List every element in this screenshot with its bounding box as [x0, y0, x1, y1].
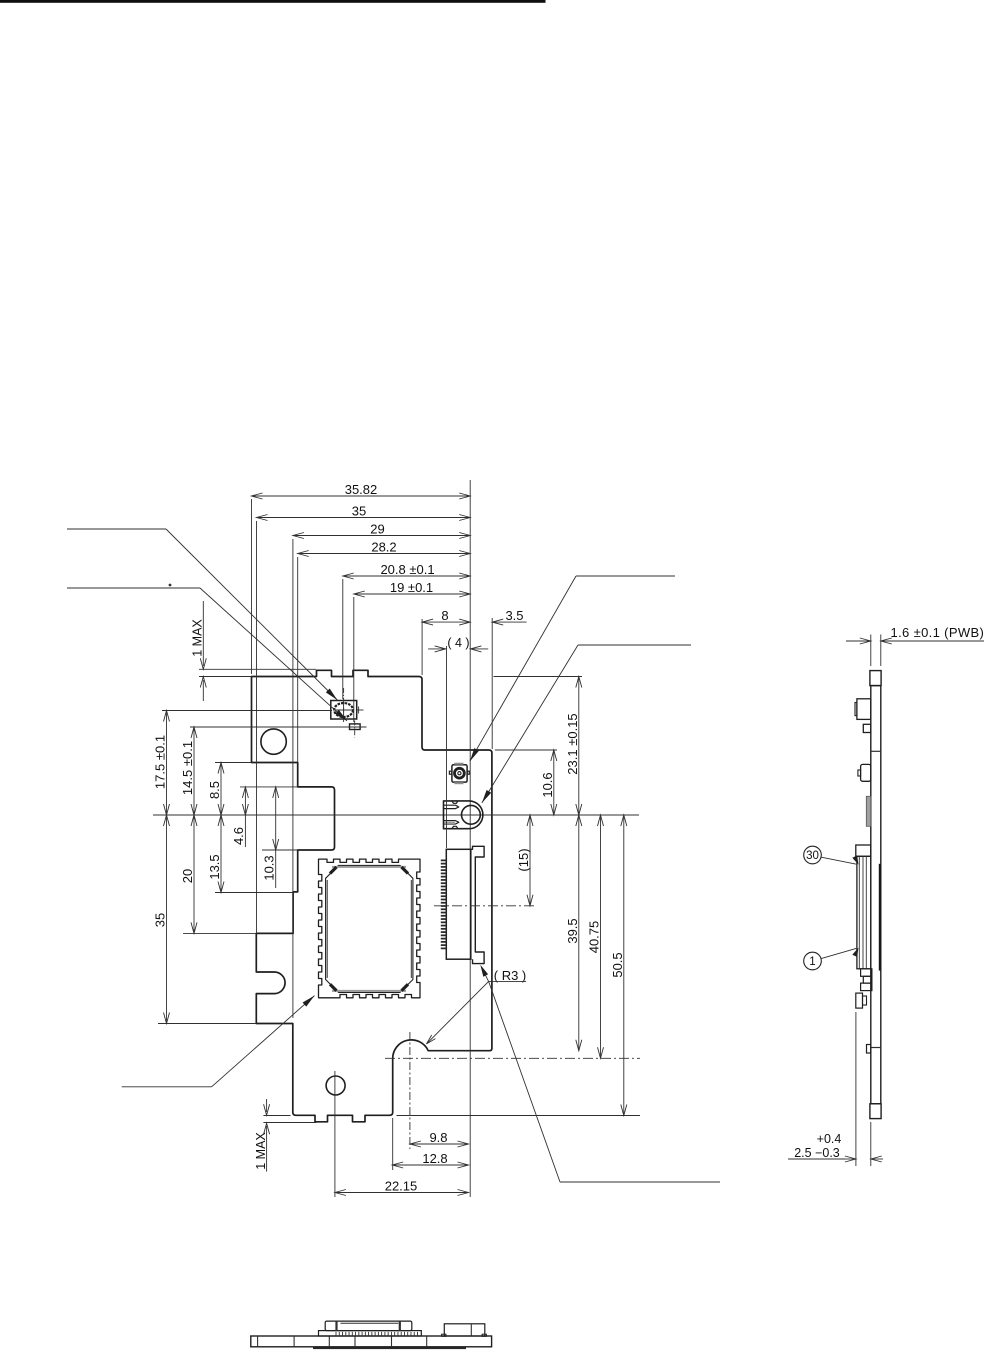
svg-text:40.75: 40.75 [587, 921, 602, 954]
svg-text:1: 1 [809, 956, 815, 968]
svg-text:9.8: 9.8 [429, 1130, 447, 1145]
svg-text:35: 35 [152, 913, 167, 927]
svg-text:29: 29 [370, 521, 384, 536]
svg-text:(15): (15) [516, 848, 531, 871]
svg-text:23.1 ±0.15: 23.1 ±0.15 [565, 713, 580, 774]
svg-text:20: 20 [180, 869, 195, 883]
svg-text:1.6 ±0.1 (PWB): 1.6 ±0.1 (PWB) [891, 625, 985, 640]
svg-text:22.15: 22.15 [385, 1179, 418, 1194]
svg-text:( 4 ): ( 4 ) [447, 636, 469, 650]
svg-text:10.6: 10.6 [540, 772, 555, 797]
svg-text:13.5: 13.5 [207, 854, 222, 879]
svg-text:17.5 ±0.1: 17.5 ±0.1 [152, 735, 167, 789]
svg-text:+0.4: +0.4 [817, 1132, 842, 1146]
svg-text:50.5: 50.5 [610, 952, 625, 977]
svg-text:4.6: 4.6 [231, 827, 246, 845]
svg-text:10.3: 10.3 [262, 855, 277, 880]
svg-text:20.8 ±0.1: 20.8 ±0.1 [380, 562, 434, 577]
svg-text:1 MAX: 1 MAX [191, 619, 205, 657]
svg-text:35.82: 35.82 [345, 482, 378, 497]
svg-text:19 ±0.1: 19 ±0.1 [390, 580, 433, 595]
svg-text:39.5: 39.5 [565, 918, 580, 943]
svg-text:28.2: 28.2 [371, 539, 396, 554]
svg-text:8.5: 8.5 [207, 781, 222, 799]
svg-text:1 MAX: 1 MAX [254, 1132, 268, 1170]
svg-text:( R3 ): ( R3 ) [494, 968, 527, 983]
svg-text:3.5: 3.5 [505, 608, 523, 623]
svg-text:8: 8 [441, 608, 448, 623]
svg-text:30: 30 [806, 850, 819, 862]
svg-text:2.5 −0.3: 2.5 −0.3 [794, 1146, 840, 1160]
svg-text:14.5 ±0.1: 14.5 ±0.1 [180, 741, 195, 795]
svg-text:35: 35 [352, 503, 366, 518]
svg-text:12.8: 12.8 [422, 1151, 447, 1166]
